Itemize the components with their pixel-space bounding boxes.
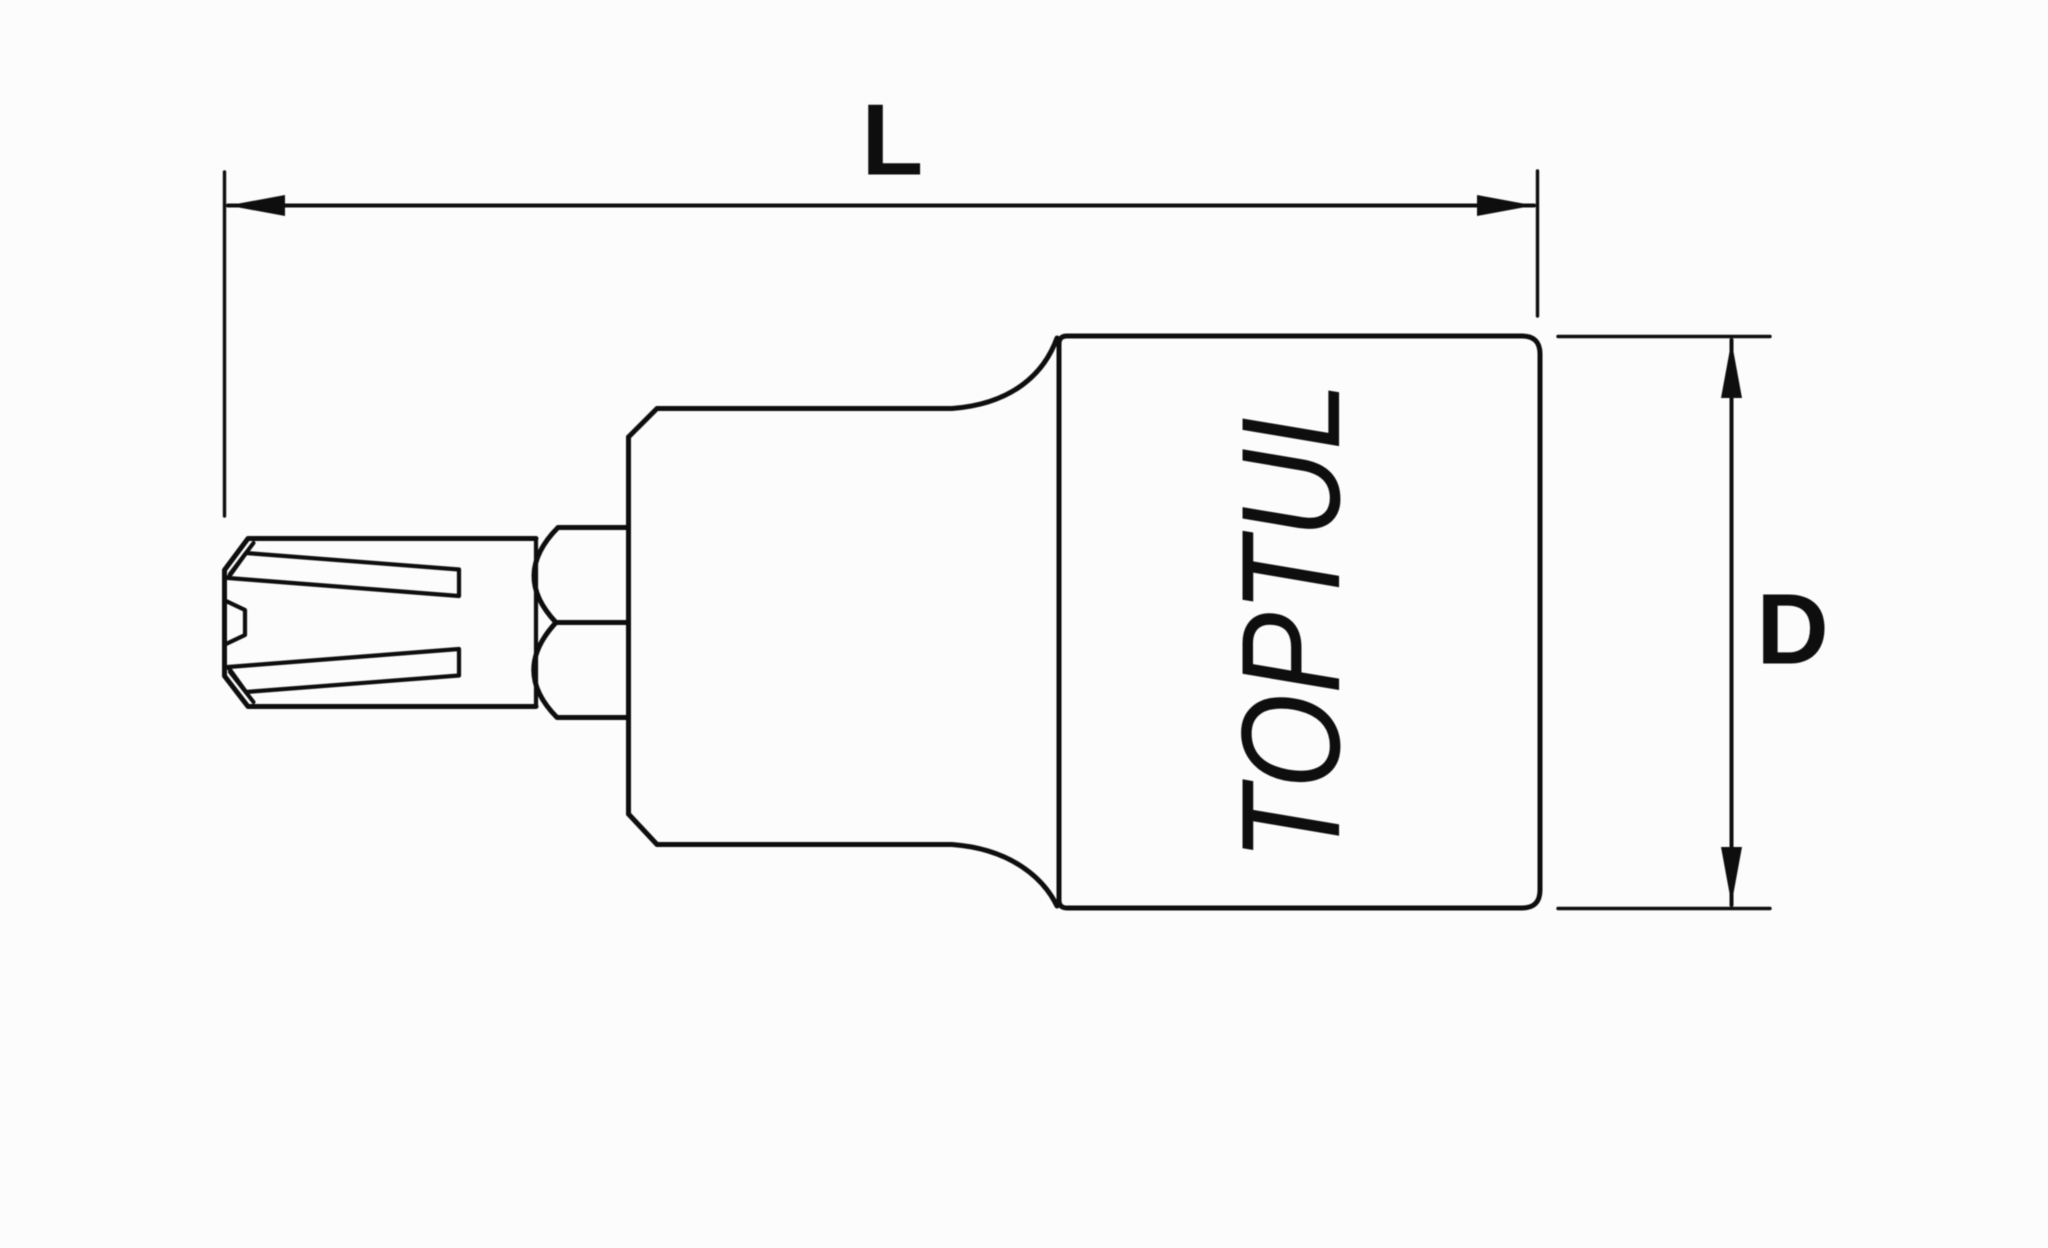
torx bit lower flute	[228, 649, 459, 692]
torx bit tip outline	[225, 539, 537, 707]
hex shank bottom face	[534, 623, 628, 718]
hex shank top face	[534, 528, 628, 623]
dimension L line	[228, 204, 1534, 208]
dimension D line	[1730, 340, 1734, 905]
torx bit right end face	[534, 540, 538, 706]
torx bit upper flute	[228, 553, 459, 596]
dimension L extension line right	[1536, 171, 1539, 316]
socket neck left edge	[626, 437, 631, 814]
dimension D arrowhead bottom	[1721, 847, 1742, 904]
dimension D arrowhead top	[1721, 341, 1742, 398]
dimension D extension line bottom	[1558, 907, 1770, 910]
torx bit top chamfer inner line	[230, 543, 254, 574]
TOPTUL brand text	[1212, 382, 1369, 861]
dimension L extension line left	[223, 172, 226, 516]
socket neck bottom	[629, 814, 1058, 906]
dimension D extension line top	[1558, 335, 1770, 338]
socket main body	[1059, 336, 1540, 908]
svg-text:L: L	[862, 85, 924, 197]
svg-text:TOPTUL: TOPTUL	[1212, 382, 1369, 861]
svg-text:D: D	[1757, 574, 1829, 686]
torx bit bottom chamfer inner line	[230, 672, 254, 702]
dimension L arrowhead right	[1477, 195, 1534, 216]
dimension L arrowhead left	[228, 195, 285, 216]
socket neck body	[629, 338, 1058, 437]
torx bit middle facet	[226, 601, 245, 644]
